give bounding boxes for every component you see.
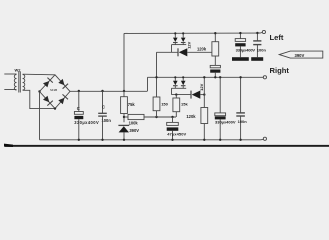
ground bar C6 <box>251 57 263 61</box>
resistor R2 100k horizontal <box>124 114 176 119</box>
node dot C4 top <box>239 32 241 34</box>
svg-text:100n: 100n <box>238 119 248 124</box>
resistor R1 75k <box>121 91 128 114</box>
svg-text:C: C <box>102 105 105 110</box>
capacitor C6 100n on Left rail <box>253 33 261 57</box>
capacitor C8 100n on Right rail <box>236 77 245 140</box>
riser wire B+ to Right rail <box>147 77 149 91</box>
node dot riser tap <box>123 90 125 92</box>
node dot R4 top <box>214 32 216 34</box>
svg-text:330µx400V: 330µx400V <box>74 120 99 125</box>
svg-text:100k: 100k <box>129 120 139 125</box>
wire node bar down to cathode run right <box>171 88 173 94</box>
wire zener node bar <box>172 44 187 46</box>
node dot zener D3 top <box>174 32 176 34</box>
riser wire B+ to Left rail <box>123 33 125 91</box>
bottom rail wire <box>40 139 262 141</box>
transformer Tr secondary winding <box>23 75 25 91</box>
svg-text:100n: 100n <box>257 47 267 52</box>
wire diode D1 cathode run <box>157 51 179 53</box>
wire B+ bus from bridge to riser <box>70 90 148 92</box>
node dot zener D4 top <box>182 32 184 34</box>
capacitor C2 plates <box>98 113 107 116</box>
node dot D2 anode tap <box>203 93 205 95</box>
capacitor C2 bottom lead <box>102 116 104 140</box>
bridge rectifier B1 diamond <box>40 75 71 109</box>
node dot C7 bottom <box>219 139 221 141</box>
wire cathode run down to R3 <box>156 52 158 97</box>
node dot C5 bottom <box>171 139 173 141</box>
node dot C3 bottom on Right rail <box>214 76 216 78</box>
node dot R6 top <box>203 76 205 78</box>
transformer Tr primary winding <box>14 75 16 91</box>
capacitor C1 330u top lead <box>78 91 80 112</box>
node dot cap C1 tap <box>78 90 80 92</box>
svg-text:12V: 12V <box>187 41 192 48</box>
zener pair D3 D4 12V on Left rail <box>173 33 186 44</box>
bridge diode top-right <box>58 79 68 89</box>
capacitor C3 below R4 <box>210 56 220 77</box>
ground bar C4 <box>232 57 249 61</box>
svg-text:120k: 120k <box>186 114 196 119</box>
terminal Right <box>261 76 267 79</box>
bridge diode left-top <box>43 78 53 88</box>
svg-text:47µx450V: 47µx450V <box>167 132 186 137</box>
terminal bottom <box>261 137 267 140</box>
svg-text:Left: Left <box>270 33 284 42</box>
wire diode D2 cathode run <box>172 94 192 96</box>
zener D5 390V <box>118 125 129 132</box>
resistor R3 bottom lead <box>156 111 158 117</box>
capacitor C2 100n top lead <box>102 91 104 113</box>
node dot cap C2 tap <box>101 90 103 92</box>
node dot zener D6 top <box>174 76 176 78</box>
capacitor C5 47u <box>167 117 179 140</box>
Right rail wire <box>148 76 262 78</box>
node dot C1 bottom <box>78 139 80 141</box>
wire bridge minus down to bottom rail <box>39 92 41 140</box>
svg-text:100n: 100n <box>102 118 112 123</box>
svg-text:SF2B: SF2B <box>50 88 57 92</box>
transformer Tr primary bottom lead <box>4 89 16 91</box>
capacitor C4 330u on Left rail <box>235 33 245 57</box>
node dot R6 bottom <box>203 139 205 141</box>
resistor R4 120k on Left rail <box>212 33 219 56</box>
svg-text:12V: 12V <box>199 83 204 90</box>
svg-text:330µx400V: 330µx400V <box>215 120 236 125</box>
node dot R5 tap <box>175 93 177 95</box>
flag 390V output <box>279 51 323 58</box>
svg-text:Right: Right <box>270 66 290 75</box>
node dot C7 top <box>219 76 221 78</box>
transformer Tr primary top lead <box>4 73 16 75</box>
node dot bridge left vertex <box>38 90 40 92</box>
zener D5 bottom lead <box>123 132 125 139</box>
svg-text:W2: W2 <box>15 68 22 73</box>
bridge diode bottom-left <box>43 96 53 106</box>
terminal Left <box>261 30 266 33</box>
diode D2 <box>191 91 204 99</box>
svg-text:330µx400V: 330µx400V <box>236 48 256 53</box>
bridge diode bottom-right <box>58 94 68 104</box>
node dot C2 bottom <box>101 139 103 141</box>
capacitor C1 bottom lead <box>78 119 80 140</box>
Left rail wire <box>124 32 261 34</box>
zener pair D6 D7 12V on Right rail <box>173 77 186 88</box>
wire zener node bar right <box>172 87 187 89</box>
svg-text:75k: 75k <box>128 102 136 107</box>
resistor R3 <box>153 97 160 111</box>
resistor R6 120k on Right rail <box>201 77 208 140</box>
svg-text:C: C <box>77 106 80 111</box>
wire secondary bottom to bridge bottom vertex <box>23 90 55 108</box>
svg-text:15k: 15k <box>181 102 188 107</box>
node dot 100k tap <box>123 116 125 118</box>
wire R1 to zener <box>123 114 125 123</box>
svg-text:390V: 390V <box>295 53 305 58</box>
svg-text:120k: 120k <box>197 47 207 52</box>
wire secondary top to bridge top vertex <box>23 73 55 76</box>
node dot bridge bottom vertex <box>54 107 56 109</box>
capacitor C7 330u on Right rail <box>215 77 226 140</box>
transformer Tr core <box>18 72 20 93</box>
node dot R3 bottom <box>155 116 157 118</box>
node dot C6 top <box>256 32 258 34</box>
node dot C8 bottom <box>239 139 241 141</box>
node dot zener D7 top <box>182 76 184 78</box>
capacitor C1 plates <box>74 112 83 120</box>
diode D1 <box>178 48 212 56</box>
node dot C5 tap <box>171 116 173 118</box>
node dot zener D5 bottom <box>123 139 125 141</box>
wire node bar down to cathode run <box>171 45 173 53</box>
svg-text:150: 150 <box>161 102 168 107</box>
resistor R5 <box>173 95 180 117</box>
node dot cross Right rail <box>155 76 157 78</box>
node dot C8 top <box>239 76 241 78</box>
border bottom black line <box>4 144 329 147</box>
svg-text:390V: 390V <box>129 128 139 133</box>
